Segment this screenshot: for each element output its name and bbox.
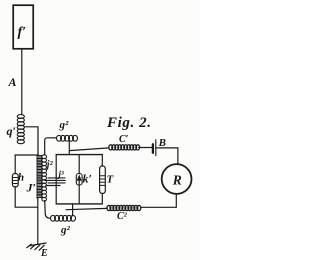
svg-text:C′: C′ [119,134,129,145]
wire top bus [56,154,102,156]
svg-text:k′: k′ [83,172,92,186]
wire left branch upper [14,155,16,174]
transformer primary j' (hatched winding) [37,156,42,198]
wire g2 right lead down to bus [68,140,70,154]
wire T branch lower [101,194,103,204]
wire tap from q' [24,127,38,155]
wire A (antenna lead) [21,49,23,115]
svg-text:q′: q′ [7,124,16,138]
wire to C' coil [70,148,110,151]
coil C' [109,145,140,150]
svg-text:A: A [8,75,17,89]
svg-text:E: E [40,248,48,259]
wire junction y=155 [15,154,38,156]
ground E [27,243,46,250]
wire g2 bottom riser [72,204,74,216]
svg-text:j²: j² [45,160,54,171]
wire left branch lower [15,187,37,207]
coherer k' [76,174,82,186]
wire to ground [37,199,39,244]
svg-text:h: h [18,172,24,184]
svg-text:C²: C² [117,211,128,222]
coil g2 bottom [51,215,76,221]
svg-text:j³: j³ [57,169,65,179]
svg-text:f′: f′ [18,25,27,40]
tube T [100,166,106,194]
wire k' branch upper [78,155,80,174]
svg-text:Fig. 2.: Fig. 2. [106,115,152,131]
svg-text:J′: J′ [26,181,36,195]
transformer secondary j2 (loop winding) [42,155,47,201]
wire k' branch lower [78,185,80,204]
wire bottom bus [56,203,102,205]
coil C2 [107,205,141,210]
antenna box f' [13,5,33,49]
resistor h [12,174,18,187]
battery B [152,144,154,153]
condenser j3 (multi-plate) [45,178,65,186]
wire R bottom [142,194,177,207]
svg-text:g²: g² [60,224,71,236]
wire secondary top to g2 coil [45,138,57,155]
svg-text:g²: g² [59,119,70,131]
wire battery to R [156,148,178,164]
wire secondary bottom to g2 bottom coil [45,201,51,219]
wire C' to battery [139,147,153,149]
wire T branch upper [101,155,103,167]
relay R (circle) [162,164,192,194]
coil q' [17,115,24,144]
wire condenser branch (box left edge) [55,155,57,204]
coil g2 top [57,135,78,141]
wire C2 left tail [66,208,107,209]
svg-text:R: R [172,172,182,187]
